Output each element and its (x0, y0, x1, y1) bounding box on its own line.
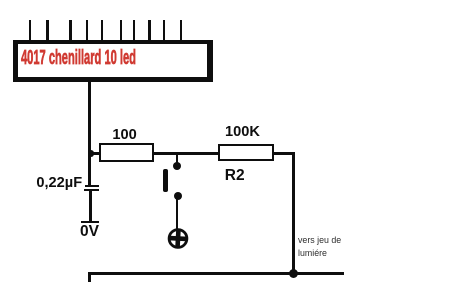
pin 8 (148, 20, 151, 42)
wire: main horizontal bus (88, 152, 295, 155)
label 100 (R1 value) (112, 128, 136, 143)
label 100K (R2 value) (225, 125, 260, 140)
IC label "4017 chenillard 10 led" (21, 48, 136, 68)
resistor R1 body (99, 143, 155, 162)
pin 7 (133, 20, 136, 42)
wire: bottom-left corner down tick (88, 272, 91, 282)
pin 4 (86, 20, 89, 42)
IC U1: 4017 chenillard 10 led (box) (13, 40, 213, 82)
net label: vers jeu de lumiére (298, 234, 341, 260)
wire: right vertical (R2 to bottom bus) (292, 152, 295, 273)
switch S1 actuator bar (163, 169, 168, 192)
resistor R2 body (218, 144, 273, 161)
pin 3 (69, 20, 72, 42)
label R2 (225, 168, 245, 184)
node: junction of left vertical and horizontal wire (88, 150, 95, 157)
wire: stub from bus down to switch top contact (176, 154, 178, 163)
node: switch bottom contact dot (174, 192, 182, 200)
capacitor C1 plate top (85, 185, 99, 187)
lamp DL1 (circle with cross) (164, 224, 194, 254)
wire: switch bottom to lamp (176, 199, 178, 230)
pin 9 (163, 20, 166, 42)
pin 1 (29, 20, 32, 42)
label 0V (80, 224, 99, 240)
0V terminal bar (81, 221, 99, 223)
node: switch top contact dot (173, 162, 181, 170)
pin 5 (101, 20, 104, 42)
wire: IC bottom to capacitor (left vertical) (88, 80, 91, 185)
wire: bottom bus horizontal (88, 272, 344, 275)
pin 10 (180, 20, 183, 42)
wire: capacitor to 0V terminal (89, 191, 91, 223)
pin 2 (46, 20, 49, 42)
node: bottom bus junction dot (289, 269, 298, 278)
label 0,22µF (C1 value) (36, 176, 82, 191)
pin 6 (120, 20, 123, 42)
capacitor C1 plate bottom (84, 189, 98, 191)
